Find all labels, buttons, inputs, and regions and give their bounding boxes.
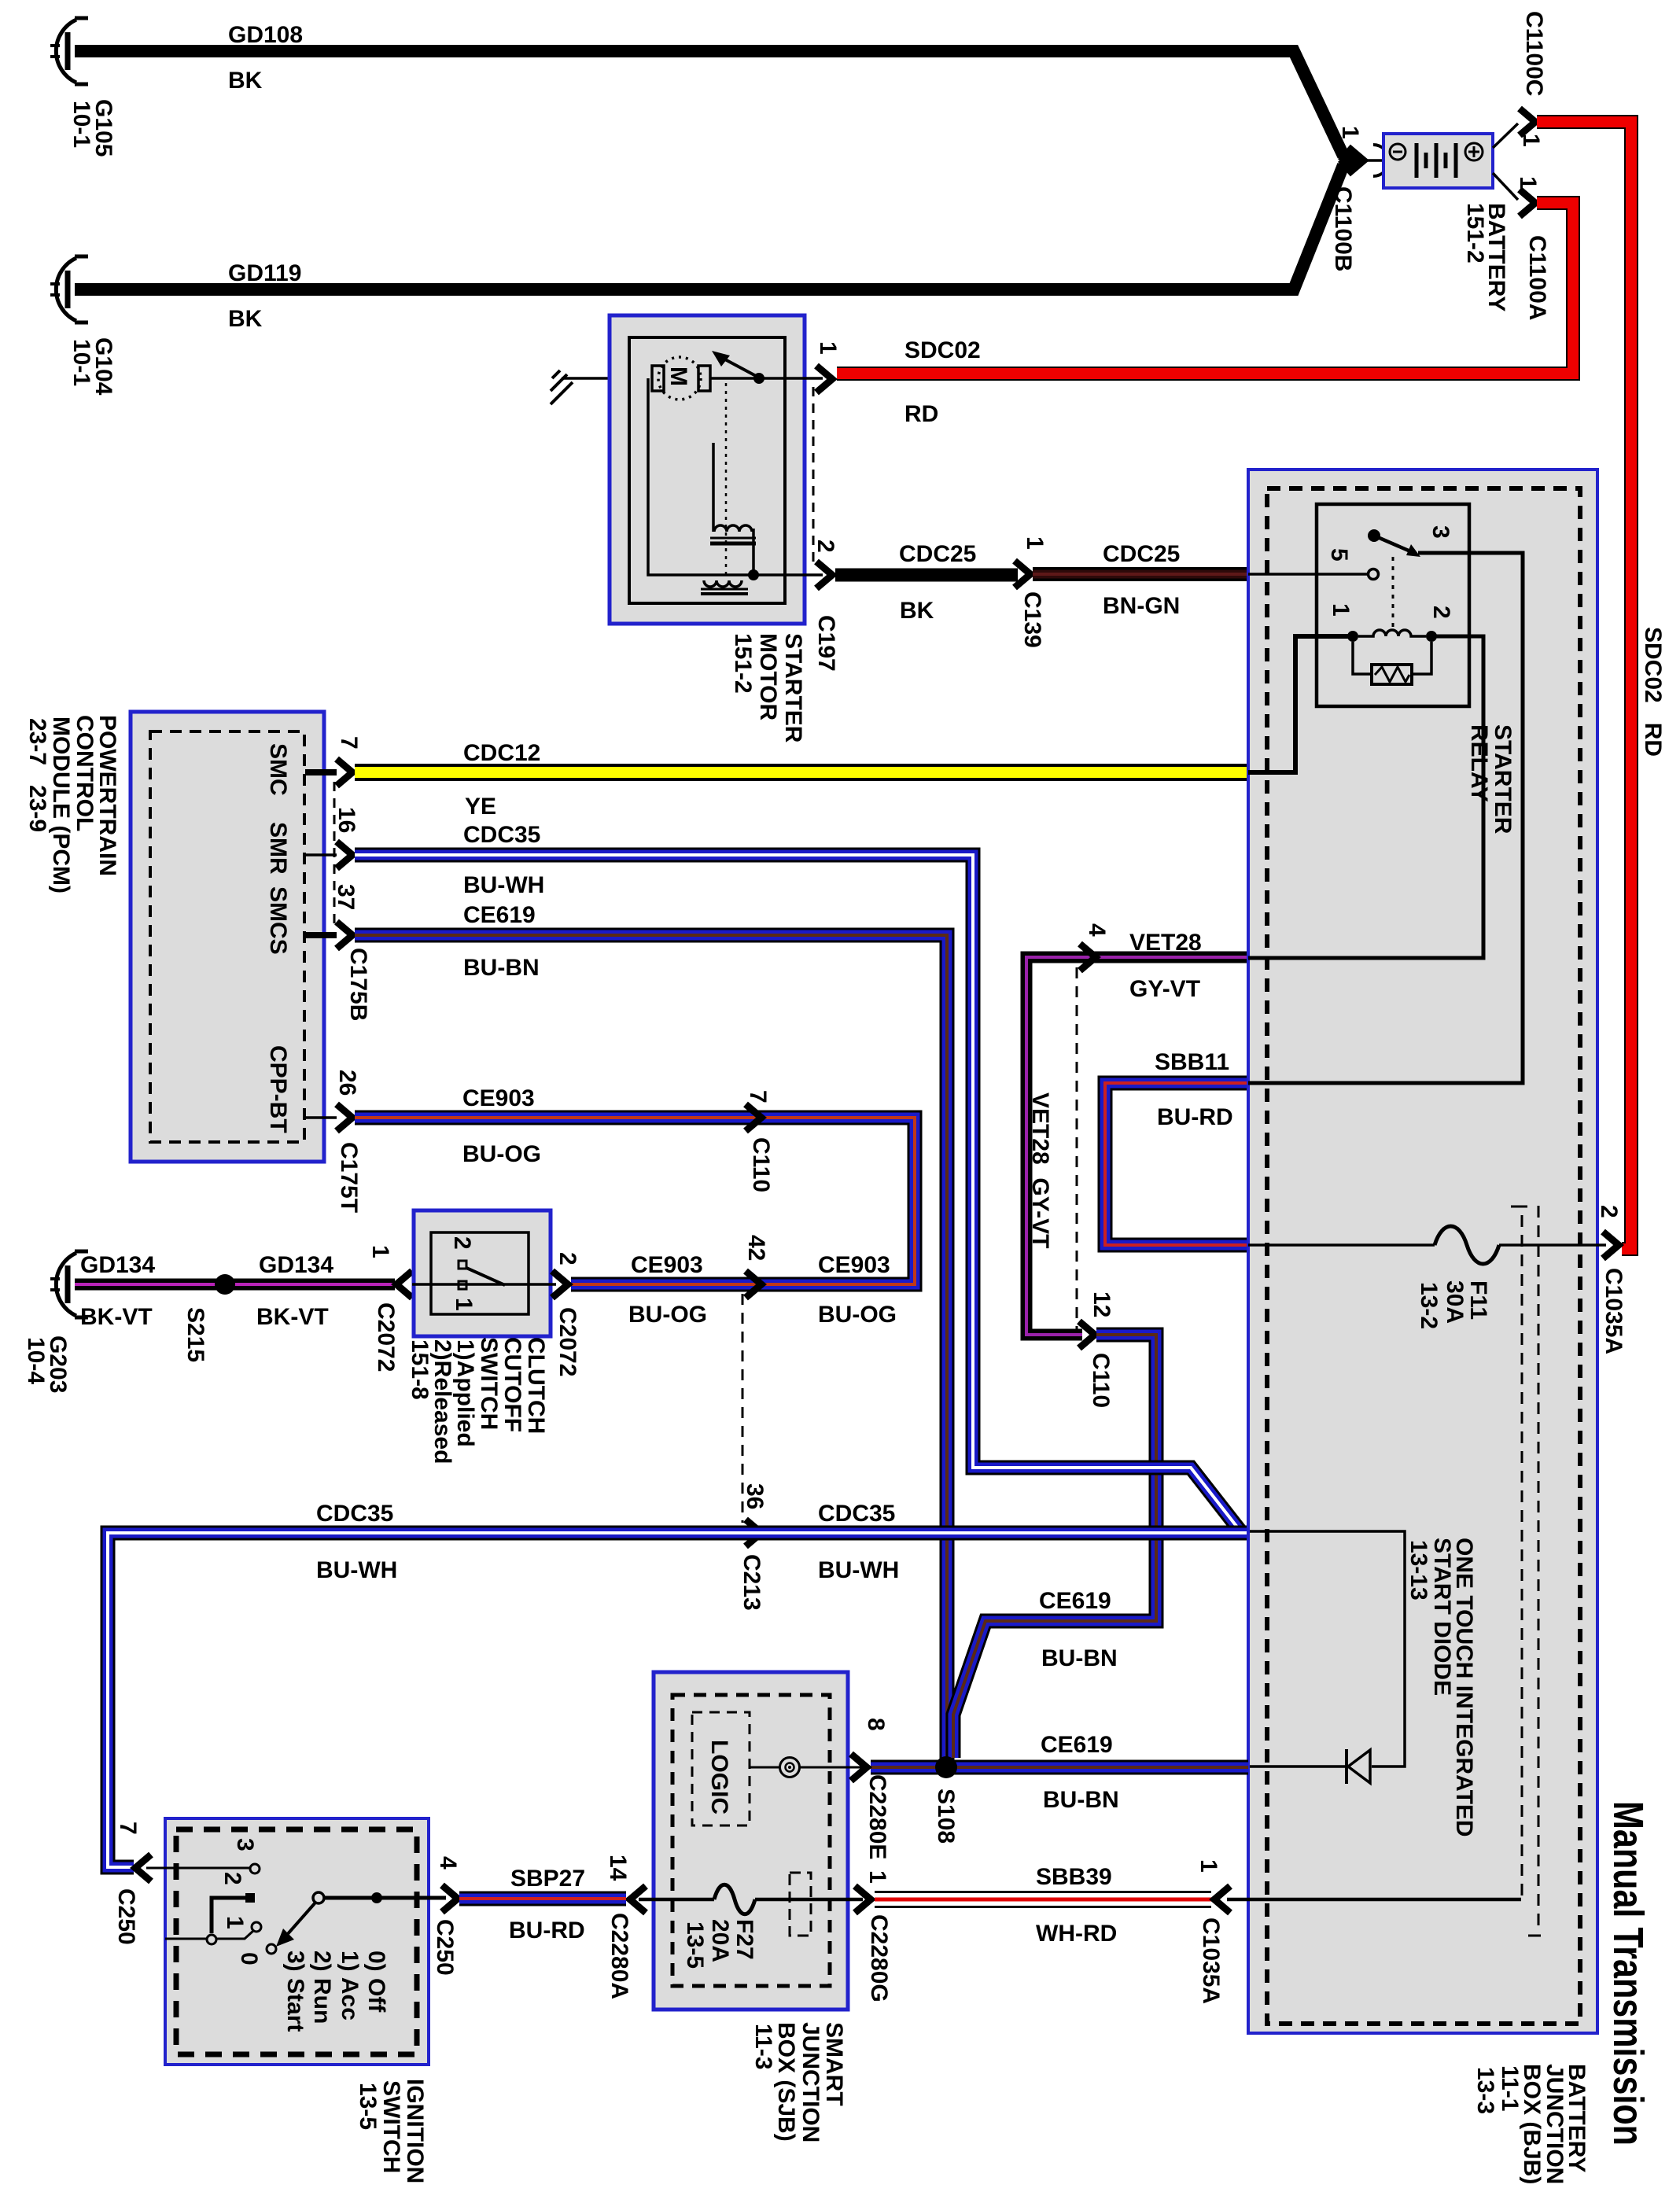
wire CE619 BU-BN S108 to BJB diode — [871, 1760, 1248, 1775]
wire SDC02 RD to starter — [837, 203, 1573, 374]
svg-text:26: 26 — [334, 1070, 360, 1096]
svg-text:1: 1 — [222, 1916, 248, 1929]
svg-text:SDC02 RD: SDC02 RD — [1640, 627, 1666, 757]
svg-text:C250: C250 — [432, 1919, 458, 1976]
svg-text:SDC02: SDC02 — [904, 337, 981, 363]
svg-text:BK: BK — [228, 68, 263, 94]
connector C213 dashed link — [742, 1294, 744, 1523]
connector C1035A pin 2 — [1603, 1232, 1619, 1258]
svg-text:F27: F27 — [731, 1919, 757, 1960]
wire SDC02 RD right-edge run — [1537, 122, 1631, 1249]
svg-text:BK-VT: BK-VT — [80, 1304, 153, 1330]
svg-text:S215: S215 — [182, 1307, 208, 1362]
connector C250 pin 4 — [442, 1885, 458, 1912]
svg-text:BU-BN: BU-BN — [1041, 1645, 1118, 1671]
SJB output node — [750, 1766, 779, 1769]
svg-text:MODULE (PCM): MODULE (PCM) — [48, 717, 74, 893]
svg-text:WH-RD: WH-RD — [1036, 1921, 1117, 1947]
ignition position 2 — [245, 1893, 255, 1903]
svg-text:BU-WH: BU-WH — [818, 1557, 899, 1583]
svg-text:C139: C139 — [1019, 591, 1045, 648]
svg-text:5: 5 — [1326, 548, 1352, 562]
wire CDC35 BU-WH long run to ignition switch — [108, 1533, 1248, 1867]
svg-text:SMC: SMC — [265, 743, 291, 796]
svg-text:37: 37 — [333, 884, 359, 910]
ignition switch box — [165, 1818, 429, 2065]
connector C2280E pin 8 — [851, 1754, 867, 1781]
svg-text:BU-OG: BU-OG — [628, 1302, 707, 1328]
ground G104 — [50, 256, 88, 322]
svg-text:0: 0 — [236, 1952, 262, 1965]
svg-text:20A: 20A — [707, 1919, 733, 1962]
svg-text:13-5: 13-5 — [355, 2083, 381, 2130]
svg-text:VET28: VET28 — [1129, 930, 1202, 956]
connector C1035A pin 1 — [1214, 1886, 1230, 1913]
svg-text:C213: C213 — [739, 1554, 764, 1611]
splice S108 — [935, 1756, 957, 1778]
svg-text:2: 2 — [1596, 1205, 1622, 1218]
wire relay pin3 to SBB11 — [1248, 553, 1523, 1083]
PCM pin 37 — [305, 932, 337, 938]
ground G203 — [50, 1251, 88, 1317]
wire CDC12 YE — [355, 764, 1248, 781]
svg-text:IGNITION: IGNITION — [402, 2079, 428, 2183]
relay pin 5 contact — [1369, 569, 1379, 580]
svg-text:C175B: C175B — [345, 948, 371, 1021]
svg-text:1: 1 — [1328, 603, 1354, 617]
svg-text:C2072: C2072 — [373, 1302, 399, 1372]
LOGIC box — [692, 1712, 750, 1825]
svg-text:16: 16 — [333, 807, 359, 833]
connector C197 pin 2 — [816, 562, 832, 588]
svg-text:C110: C110 — [748, 1137, 774, 1192]
ground G105 — [50, 18, 88, 84]
svg-text:C197: C197 — [813, 615, 839, 672]
svg-text:3: 3 — [1428, 525, 1453, 539]
svg-text:CUTOFF: CUTOFF — [499, 1337, 525, 1432]
svg-text:BK: BK — [900, 598, 934, 624]
PCM pin 26 — [305, 1116, 337, 1119]
svg-text:CE619: CE619 — [1039, 1588, 1111, 1614]
svg-text:8: 8 — [863, 1718, 889, 1731]
connector C1035A dashed links — [1521, 1215, 1523, 1897]
svg-text:BU-WH: BU-WH — [463, 872, 544, 898]
svg-text:13-3: 13-3 — [1472, 2067, 1498, 2114]
clutch cutoff switch box — [414, 1210, 551, 1336]
connector C250 pin 7 — [135, 1855, 151, 1881]
svg-text:36: 36 — [742, 1483, 768, 1509]
svg-text:BK: BK — [228, 306, 263, 332]
svg-text:1: 1 — [451, 1298, 477, 1311]
svg-text:CE903: CE903 — [631, 1252, 703, 1278]
motor M — [658, 357, 701, 400]
relay coil — [1347, 631, 1358, 642]
battery junction box (BJB) — [1248, 470, 1597, 2033]
ignition position 1 — [252, 1922, 261, 1932]
svg-text:BU-BN: BU-BN — [1043, 1787, 1119, 1813]
svg-text:SBB11: SBB11 — [1155, 1049, 1229, 1075]
svg-text:2: 2 — [554, 1252, 580, 1265]
svg-text:23-7 23-9: 23-7 23-9 — [24, 718, 50, 832]
svg-text:1: 1 — [1196, 1859, 1221, 1873]
connector C1100C pin 1 — [1493, 123, 1518, 148]
svg-text:GD108: GD108 — [228, 22, 303, 48]
svg-text:10-4: 10-4 — [23, 1337, 49, 1384]
svg-text:2: 2 — [219, 1872, 245, 1885]
svg-text:C110: C110 — [1088, 1353, 1114, 1408]
wire GD108 BK — [75, 51, 1343, 156]
smart junction box (SJB) — [654, 1672, 848, 2010]
wire CE903 BU-OG — [355, 1118, 915, 1284]
wire CDC35 BU-WH from PCM pin 16 — [355, 855, 1241, 1532]
relay switch arm — [1374, 536, 1416, 554]
solenoid pull-in winding lead — [712, 443, 715, 532]
clutch switch contacts — [459, 1261, 466, 1269]
wire CDC25 BN-GN — [1033, 567, 1248, 581]
starter relay box — [1317, 504, 1469, 706]
svg-text:C1100A: C1100A — [1524, 235, 1550, 320]
powertrain control module (PCM) box — [131, 712, 324, 1162]
svg-text:1: 1 — [815, 341, 841, 355]
position 2 link — [212, 1898, 245, 1933]
connector C2072 pin 1 — [396, 1271, 412, 1298]
svg-text:42: 42 — [743, 1235, 769, 1261]
relay pin 3 contact — [1368, 529, 1380, 542]
chassis ground at starter motor — [551, 370, 573, 404]
svg-text:CLUTCH: CLUTCH — [523, 1337, 549, 1434]
ignition position 0 — [267, 1944, 276, 1954]
svg-text:CDC25: CDC25 — [1103, 541, 1180, 567]
wire rotor to pin 4 — [324, 1896, 446, 1900]
svg-text:BU-WH: BU-WH — [316, 1557, 397, 1583]
svg-text:C1100B: C1100B — [1330, 186, 1356, 271]
svg-text:CDC35: CDC35 — [818, 1501, 895, 1527]
svg-text:GD134: GD134 — [259, 1252, 333, 1278]
svg-text:C2072: C2072 — [554, 1307, 580, 1376]
svg-text:1: 1 — [864, 1870, 890, 1884]
svg-text:RELAY: RELAY — [1466, 724, 1492, 802]
svg-text:BU-OG: BU-OG — [818, 1302, 897, 1328]
svg-text:CE619: CE619 — [1041, 1732, 1113, 1758]
svg-text:GD119: GD119 — [228, 260, 301, 286]
svg-text:SWITCH: SWITCH — [378, 2080, 404, 2173]
svg-text:JUNCTION: JUNCTION — [798, 2022, 823, 2142]
PCM pin 16 — [305, 853, 337, 857]
battery 151-2 — [1383, 134, 1493, 188]
connector C1100A pin 1 — [1493, 173, 1518, 200]
svg-text:LOGIC: LOGIC — [706, 1740, 732, 1814]
solenoid coil lower — [704, 580, 742, 587]
svg-text:BU-RD: BU-RD — [1157, 1104, 1233, 1130]
connector C110 pin 4 — [1080, 944, 1096, 971]
svg-text:2) Run: 2) Run — [309, 1951, 335, 2024]
svg-text:MOTOR: MOTOR — [755, 633, 781, 720]
wire CE619 BU-BN from PCM pin 37 — [355, 935, 947, 1762]
svg-text:C1100C: C1100C — [1521, 11, 1547, 96]
wire SBB11 BU-RD — [1105, 1083, 1248, 1245]
svg-text:YE: YE — [465, 794, 496, 820]
svg-text:10-1: 10-1 — [68, 339, 94, 386]
svg-text:2: 2 — [812, 540, 838, 553]
svg-text:F11: F11 — [1465, 1280, 1491, 1320]
svg-text:1: 1 — [1022, 536, 1048, 550]
svg-text:CPP-BT: CPP-BT — [265, 1045, 291, 1133]
svg-text:151-2: 151-2 — [1462, 203, 1488, 263]
svg-text:SBP27: SBP27 — [510, 1866, 585, 1892]
svg-text:3) Start: 3) Start — [282, 1951, 308, 2032]
starter motor 151-2 box — [610, 315, 805, 624]
svg-text:CE903: CE903 — [462, 1085, 535, 1111]
svg-text:7: 7 — [745, 1090, 771, 1103]
svg-text:CDC35: CDC35 — [463, 822, 540, 848]
svg-text:10-1: 10-1 — [68, 101, 94, 148]
svg-text:1: 1 — [1337, 126, 1363, 139]
svg-text:151-2: 151-2 — [730, 633, 756, 694]
svg-text:VET28 GY-VT: VET28 GY-VT — [1027, 1092, 1053, 1248]
svg-text:STARTER: STARTER — [1490, 724, 1516, 834]
svg-text:CE619: CE619 — [463, 902, 536, 928]
svg-text:13-2: 13-2 — [1416, 1282, 1442, 1329]
svg-text:C2280A: C2280A — [606, 1913, 632, 1999]
PCM pin 7 — [305, 769, 337, 775]
svg-text:S108: S108 — [933, 1789, 959, 1844]
svg-text:GY-VT: GY-VT — [1129, 976, 1200, 1002]
wire SBP27 BU-RD — [459, 1892, 626, 1906]
svg-text:SMCS: SMCS — [265, 886, 291, 955]
connector C2072 pin 2 — [552, 1271, 568, 1298]
wire relay coil pin2 to VET28 — [1248, 636, 1483, 958]
connector C110 dashed link — [1076, 967, 1078, 1329]
svg-text:12: 12 — [1089, 1291, 1114, 1317]
svg-text:151-8: 151-8 — [407, 1339, 433, 1400]
connector C213 pin 36 — [746, 1520, 761, 1546]
svg-text:13-5: 13-5 — [682, 1921, 708, 1969]
svg-text:C2280G: C2280G — [866, 1914, 892, 2002]
svg-text:1) Acc: 1) Acc — [337, 1951, 363, 2021]
solenoid actuator dashed — [725, 383, 728, 577]
svg-text:BN-GN: BN-GN — [1103, 593, 1180, 619]
wire CDC12 inside BJB to relay coil pin 1 — [1248, 636, 1350, 772]
svg-text:SWITCH: SWITCH — [476, 1337, 502, 1430]
svg-text:0) Off: 0) Off — [363, 1951, 389, 2013]
svg-text:CDC25: CDC25 — [899, 541, 976, 567]
svg-text:4: 4 — [435, 1856, 461, 1870]
svg-text:CONTROL: CONTROL — [72, 715, 98, 831]
svg-text:SMR: SMR — [265, 822, 291, 875]
connector C1100B pin 1 — [1348, 147, 1364, 174]
wire relay pin5 lead — [1248, 573, 1369, 576]
connector C110 pin 7 — [746, 1104, 761, 1131]
svg-text:CDC12: CDC12 — [463, 740, 540, 766]
wire SBB39 inside BJB — [1227, 1898, 1521, 1902]
starter switch arm — [724, 359, 757, 377]
connector C110 pin 12 — [1079, 1321, 1095, 1348]
svg-text:1: 1 — [1515, 176, 1541, 190]
svg-text:GD134: GD134 — [80, 1252, 155, 1278]
relay actuator dashed — [1392, 557, 1394, 629]
svg-text:BU-BN: BU-BN — [463, 955, 540, 981]
wire SBB39 WH-RD — [875, 1891, 1211, 1908]
solenoid coil upper — [714, 525, 752, 532]
connector C197 dashed link — [812, 387, 815, 566]
connector C2280A pin 14 — [630, 1886, 646, 1913]
wire VET28 GY-VT — [1026, 957, 1248, 1335]
wire CE619 BU-BN from C110 pin 12 to S108 — [953, 1335, 1156, 1758]
connector C175B dashed link — [333, 782, 336, 928]
svg-text:BK-VT: BK-VT — [256, 1304, 329, 1330]
svg-text:SBB39: SBB39 — [1036, 1864, 1112, 1890]
motor return wire — [648, 378, 823, 575]
fuse F11 30A — [1248, 1243, 1435, 1247]
svg-text:1: 1 — [367, 1245, 393, 1258]
svg-text:BU-OG: BU-OG — [462, 1141, 541, 1167]
svg-text:C250: C250 — [113, 1888, 139, 1945]
svg-text:BU-RD: BU-RD — [509, 1918, 585, 1943]
svg-text:30A: 30A — [1442, 1280, 1468, 1324]
svg-text:STARTER: STARTER — [780, 633, 806, 743]
wire GD134 BK-VT — [75, 1279, 395, 1291]
ignition position 3 — [250, 1864, 260, 1873]
svg-text:C1035A: C1035A — [1601, 1268, 1627, 1354]
wire motor to switch — [710, 377, 823, 380]
connector C213 pin 42 — [746, 1271, 761, 1298]
svg-text:11-3: 11-3 — [750, 2024, 776, 2069]
svg-text:11-1: 11-1 — [1497, 2065, 1523, 2111]
svg-text:CE903: CE903 — [818, 1252, 890, 1278]
svg-text:7: 7 — [115, 1822, 141, 1835]
svg-text:14: 14 — [605, 1855, 631, 1881]
one touch integrated start diode 13-13 — [1250, 1531, 1405, 1766]
svg-text:7: 7 — [336, 736, 362, 750]
svg-text:C1035A: C1035A — [1198, 1918, 1224, 2004]
wire GD119 BK — [75, 165, 1343, 289]
svg-text:CDC35: CDC35 — [316, 1501, 393, 1527]
connector C2280G pin 1 — [855, 1886, 871, 1913]
svg-text:START DIODE: START DIODE — [1429, 1538, 1455, 1696]
svg-text:4: 4 — [1084, 923, 1110, 937]
svg-text:Manual Transmission: Manual Transmission — [1604, 1801, 1652, 2146]
svg-text:2: 2 — [1428, 606, 1454, 619]
svg-text:RD: RD — [904, 401, 938, 427]
svg-text:1: 1 — [1518, 134, 1544, 147]
connector C139 pin 1 — [1015, 561, 1030, 588]
svg-text:M: M — [665, 367, 691, 386]
wire into position 3 — [146, 1867, 249, 1870]
ignition rotor arm — [313, 1892, 324, 1903]
svg-text:3: 3 — [232, 1838, 258, 1851]
connector C197 pin 1 — [816, 366, 832, 392]
svg-text:C2280E: C2280E — [864, 1774, 890, 1859]
wire CDC25 BK — [835, 569, 1018, 582]
relay resistor — [1353, 642, 1431, 674]
svg-text:13-13: 13-13 — [1406, 1540, 1431, 1601]
fuse F27 20A — [639, 1898, 714, 1902]
svg-text:C175T: C175T — [336, 1142, 362, 1213]
svg-text:SMART: SMART — [821, 2022, 847, 2106]
svg-text:2: 2 — [449, 1236, 475, 1250]
splice S215 — [215, 1274, 235, 1295]
